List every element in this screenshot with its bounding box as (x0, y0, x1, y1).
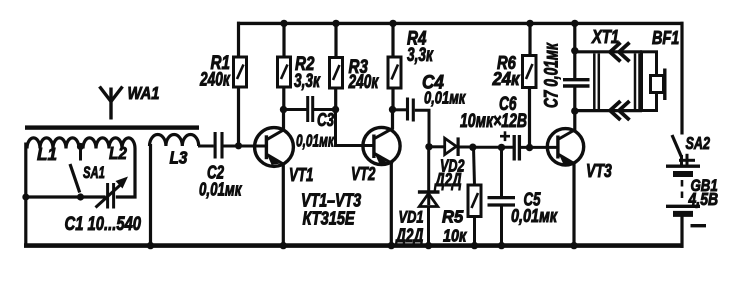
svg-text:C3: C3 (317, 110, 334, 131)
capacitor C6 (polarized) (514, 135, 519, 161)
transistor VT1 (255, 128, 294, 167)
node: VT3 emitter on ground rail (570, 242, 577, 249)
wire: C5 bottom to ground rail (500, 206, 503, 247)
node: R3 top rail (332, 20, 339, 27)
node: R6 bottom on VT3 base wire (526, 144, 533, 151)
wire: C7 bottom to VT3 collector (573, 87, 576, 131)
svg-text:10к: 10к (443, 226, 467, 246)
wire: R4 bottom (391, 88, 394, 111)
node: VD2 right / R5 top (469, 144, 476, 151)
wire: right rail (SA2/battery branch, top segment) (680, 22, 683, 135)
svg-text:VT3: VT3 (586, 161, 612, 181)
svg-text:WA1: WA1 (128, 84, 160, 104)
node: SA1 bottom contact (77, 193, 84, 200)
wire: C3 to R3 node (314, 108, 336, 111)
resistor R2 (278, 57, 291, 87)
svg-text:240к: 240к (199, 68, 231, 90)
svg-text:VT1: VT1 (289, 165, 313, 186)
inductor L3 (150, 134, 199, 146)
battery GB1 cell 2 (666, 206, 700, 214)
diode VD1 (418, 192, 440, 207)
node: R1 bottom on base wire (235, 142, 242, 149)
wire: R6 top (528, 22, 531, 56)
battery minus sign (691, 224, 707, 227)
wire: VT2 emitter down to ground rail (390, 163, 393, 248)
wire: R5 top (474, 147, 475, 186)
capacitor C4 (408, 98, 414, 122)
svg-text:VT2: VT2 (351, 164, 375, 185)
svg-text:BF1: BF1 (652, 27, 679, 48)
svg-text:3,3к: 3,3к (294, 70, 321, 92)
node: R6 top rail (526, 20, 533, 27)
node: L3 on ground rail (147, 242, 154, 249)
capacitor C5 (488, 198, 516, 205)
svg-text:24к: 24к (492, 68, 521, 89)
node: C3 right / R3 bottom (332, 106, 339, 113)
capacitor C1 (variable) (96, 177, 129, 209)
battery GB1 cell 1 (666, 166, 700, 174)
inductor L1 (27, 138, 79, 149)
wire: R3 bottom (334, 88, 337, 111)
svg-text:0,01мк: 0,01мк (296, 131, 335, 151)
wire: C3 node down and right to VT2 base (336, 111, 375, 146)
wire: VD1 bottom to ground rail (427, 207, 430, 248)
connector XT1 contact pair (right) (635, 54, 640, 111)
capacitor C2 (215, 132, 222, 159)
wire: VT1 emitter down to ground rail (282, 164, 285, 248)
connector XT1 contact pair (left) (594, 54, 599, 111)
svg-text:3,3к: 3,3к (407, 44, 434, 66)
wire: R1 bottom (237, 87, 240, 147)
battery GB1 dashed middle (681, 180, 684, 203)
wire: node to C3 (284, 108, 307, 111)
node: L1-L2 tap (77, 143, 84, 150)
svg-text:10мк×12В: 10мк×12В (460, 110, 527, 132)
svg-text:SA1: SA1 (83, 164, 105, 183)
svg-text:0,01мк: 0,01мк (424, 89, 466, 109)
wire: tank bottom left segment (25, 195, 106, 198)
resistor R4 (388, 57, 401, 88)
svg-text:C1 10...540: C1 10...540 (65, 212, 142, 235)
svg-text:240к: 240к (348, 71, 380, 93)
wire: battery bottom to ground rail (680, 217, 683, 248)
connector XT1 plug chevrons (top) (610, 43, 630, 62)
svg-text:4,5В: 4,5В (688, 189, 719, 209)
diode VD2 (445, 137, 458, 156)
svg-text:КТ315Е: КТ315Е (303, 208, 356, 229)
wire: C6 to R6 node (521, 146, 558, 149)
svg-text:L3: L3 (170, 147, 188, 167)
connector XT1 plug chevrons (bottom) (610, 101, 630, 120)
svg-text:0,01мк: 0,01мк (511, 205, 558, 226)
wire: tank bottom right segment + right corner up to L2 (116, 149, 135, 198)
svg-text:XT1: XT1 (591, 26, 619, 47)
svg-text:Д2Д: Д2Д (433, 170, 462, 191)
wire: tap stub to SA1 (79, 147, 82, 161)
inductor L2 (83, 138, 135, 149)
wire: node to C6 (473, 146, 513, 149)
wire: R1 top (237, 22, 240, 58)
node: XT1 top branch (571, 47, 578, 54)
wire: L3 to C2 (198, 145, 214, 148)
node: VT1 collector / C3 left (280, 106, 287, 113)
wire: C5 top (500, 147, 503, 196)
wire: node to VD2 (429, 145, 445, 148)
wire: XT1 top wire (575, 50, 642, 53)
node: VT2 emitter on ground rail (388, 242, 395, 249)
wire: C4 right, corner down to VD2 node (415, 110, 429, 147)
svg-text:SA2: SA2 (686, 134, 711, 154)
svg-text:Д2Д: Д2Д (394, 225, 423, 247)
capacitor C3 (308, 96, 313, 122)
capacitor C7 (563, 80, 590, 86)
svg-text:L1: L1 (37, 144, 57, 165)
node: C5 on ground rail (498, 242, 505, 249)
transistor VT3 (547, 129, 583, 165)
wire: L3 left end down to ground rail (149, 144, 152, 247)
wire: R4 top (391, 22, 394, 58)
node: VT2 collector / C4 left (389, 106, 396, 113)
resistor R6 (523, 56, 537, 88)
node: XT1 bottom branch (571, 107, 578, 114)
wire: R3 top (334, 22, 337, 58)
resistor R1 (234, 57, 247, 87)
speaker BF1 (642, 52, 665, 111)
wire: VD1 top (427, 147, 430, 205)
wire: node to C4 (393, 108, 407, 111)
svg-text:C7 0,01мк: C7 0,01мк (540, 42, 562, 108)
svg-text:0,01мк: 0,01мк (199, 179, 242, 200)
node: C5 top / C6 left (498, 144, 505, 151)
node: R5 on ground rail (471, 242, 478, 249)
node: R4 top rail (389, 20, 396, 27)
C6 plus sign (500, 131, 510, 141)
node: R2 top rail (280, 20, 287, 27)
resistor R5 (468, 185, 481, 217)
wire: VT1 collector up to C3 node (282, 110, 285, 131)
wire: SA2 to battery (680, 155, 683, 165)
node: VT1 emitter on ground rail (280, 242, 287, 249)
transistor VT2 (363, 127, 400, 164)
wire: VT3 emitter down to ground rail (572, 163, 575, 247)
wire: VD2 to R5 node (460, 146, 474, 149)
wire: R2 top (282, 22, 285, 58)
node: tank bottom left corner (22, 194, 29, 201)
svg-text:L2: L2 (109, 143, 127, 163)
wire: R6 bottom (528, 87, 531, 148)
wire: XT1 bottom wire (575, 109, 642, 112)
wire: R5 bottom to ground rail (473, 217, 476, 248)
switch SA1 lever (70, 164, 80, 193)
switch SA2 lever (672, 135, 681, 157)
battery GB1 plus sign (679, 154, 695, 167)
wire: bottom ground rail (24, 243, 684, 248)
node: C7 branch top rail (571, 20, 578, 27)
svg-text:R5: R5 (442, 207, 464, 226)
wire: L1 left end down to ground rail (24, 143, 27, 248)
wire: VT3 collector / C7 branch vertical (573, 22, 576, 79)
wire: C2 to VT1 base (224, 145, 267, 148)
wire: top supply rail (237, 22, 684, 25)
resistor R3 (330, 58, 343, 89)
node: VD1 on ground rail (425, 242, 432, 249)
wire: VT2 collector up to C4 node (391, 110, 394, 130)
wire: R2 bottom (282, 87, 285, 111)
node: VD1/VD2 junction (425, 143, 432, 150)
antenna WA1 (100, 87, 123, 120)
ferrite rod (magnetic antenna core) (25, 125, 199, 129)
